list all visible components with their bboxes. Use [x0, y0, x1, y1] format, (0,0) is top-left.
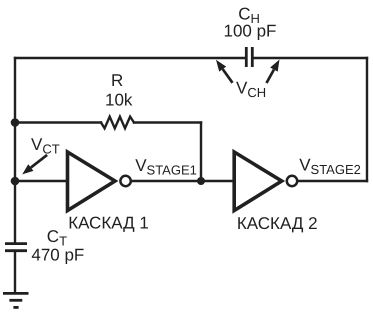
wire inverter2 output	[298, 180, 367, 182]
svg-text:КАСКАД 2: КАСКАД 2	[237, 214, 318, 233]
capacitor C_H plates	[246, 47, 252, 67]
svg-text:470 pF: 470 pF	[31, 246, 84, 265]
capacitor C_T plates	[5, 244, 27, 251]
op-amp U1 inverter triangle	[68, 152, 116, 211]
wire feedback vertical	[200, 123, 202, 182]
op-amp U2 inverter triangle	[234, 152, 282, 211]
node junction dot VSTAGE1	[197, 177, 205, 185]
op-amp U1 bubble	[120, 176, 130, 186]
arrow VCH right	[267, 60, 280, 84]
wire inverter1 input	[15, 180, 67, 182]
node junction dot R/VCT left top	[11, 118, 20, 127]
wire resistor row right	[134, 121, 201, 123]
wire CT lower	[14, 252, 16, 293]
wire right vertical	[366, 58, 368, 181]
arrow VCH left	[216, 60, 233, 83]
wire inverter1 output to node	[132, 180, 234, 182]
arrow VCT	[22, 155, 47, 175]
ground	[3, 293, 29, 307]
svg-text:10k: 10k	[105, 91, 133, 110]
svg-text:R: R	[111, 71, 123, 90]
wire top-right segment	[254, 57, 368, 59]
svg-text:VCT: VCT	[31, 135, 60, 157]
resistor R1 zigzag	[101, 117, 134, 129]
node junction dot VCT	[11, 177, 20, 186]
wire resistor row left	[15, 121, 101, 123]
op-amp U2 bubble	[287, 176, 297, 186]
wire top-left segment	[15, 57, 245, 59]
svg-text:VSTAGE1: VSTAGE1	[135, 156, 197, 178]
svg-text:100 pF: 100 pF	[224, 22, 277, 41]
svg-text:VSTAGE2: VSTAGE2	[299, 156, 361, 178]
svg-text:VCH: VCH	[236, 79, 266, 101]
svg-text:КАСКАД 1: КАСКАД 1	[68, 214, 149, 233]
wire left vertical	[14, 58, 16, 243]
